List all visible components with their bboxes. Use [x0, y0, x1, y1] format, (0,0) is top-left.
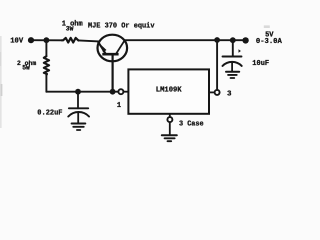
svg-text:10V: 10V	[10, 38, 24, 46]
node: 5V output terminal	[242, 37, 248, 43]
ground (below C2)	[226, 72, 239, 78]
wire output node down to pin 3 of regulator	[216, 40, 218, 90]
node junction A (input/R1/R2)	[44, 37, 50, 43]
C2 polarity mark	[239, 49, 241, 52]
svg-text:MJE 370 Or equiv: MJE 370 Or equiv	[88, 23, 155, 31]
node junction output to C2	[230, 37, 236, 43]
scan edge smudge	[0, 36, 2, 128]
wire R1 to transistor emitter	[78, 40, 99, 41]
svg-text:3: 3	[227, 90, 232, 98]
transistor Q1 MJE370	[98, 35, 128, 62]
svg-text:0-3.0A: 0-3.0A	[256, 38, 283, 46]
svg-text:3 Case: 3 Case	[179, 120, 204, 128]
ground (below C1)	[72, 124, 86, 131]
capacitor C1 0.22uF	[68, 92, 89, 123]
capacitor C2 10uF	[223, 57, 242, 72]
node: 10V input terminal	[28, 37, 34, 43]
pin 3 case terminal bottom (open circle)	[167, 114, 172, 135]
wire transistor base lead down	[111, 54, 113, 91]
wire input 10V to junction A	[31, 39, 62, 41]
op-amp U1 LM109K regulator box	[128, 69, 209, 113]
pin 1 terminal (open circle)	[118, 89, 128, 94]
svg-text:10uF: 10uF	[252, 60, 269, 68]
svg-text:3W: 3W	[66, 26, 74, 33]
pin 3 terminal right (open circle)	[209, 90, 220, 95]
node junction base/pin1	[110, 89, 116, 95]
wire lower rail to LM109K pin 1	[46, 91, 118, 93]
svg-text:1: 1	[117, 102, 121, 110]
resistor R2 2 ohm 5W zigzag	[44, 56, 49, 75]
svg-text:5W: 5W	[22, 64, 30, 71]
svg-text:LM109K: LM109K	[156, 86, 182, 94]
node junction at C1 top	[75, 89, 81, 95]
wire output node down to capacitor C2	[232, 40, 234, 56]
scan smudge above 5V	[264, 25, 270, 28]
wire transistor collector to output terminal	[125, 39, 246, 41]
node junction output to regulator	[214, 37, 220, 43]
wire junction A down to R2	[45, 40, 47, 56]
svg-text:0.22uF: 0.22uF	[37, 110, 62, 118]
resistor R1 1 ohm 3W zigzag	[62, 38, 79, 43]
wire R2 bottom to lower rail corner	[45, 75, 47, 92]
ground (below LM109K case)	[162, 135, 177, 141]
